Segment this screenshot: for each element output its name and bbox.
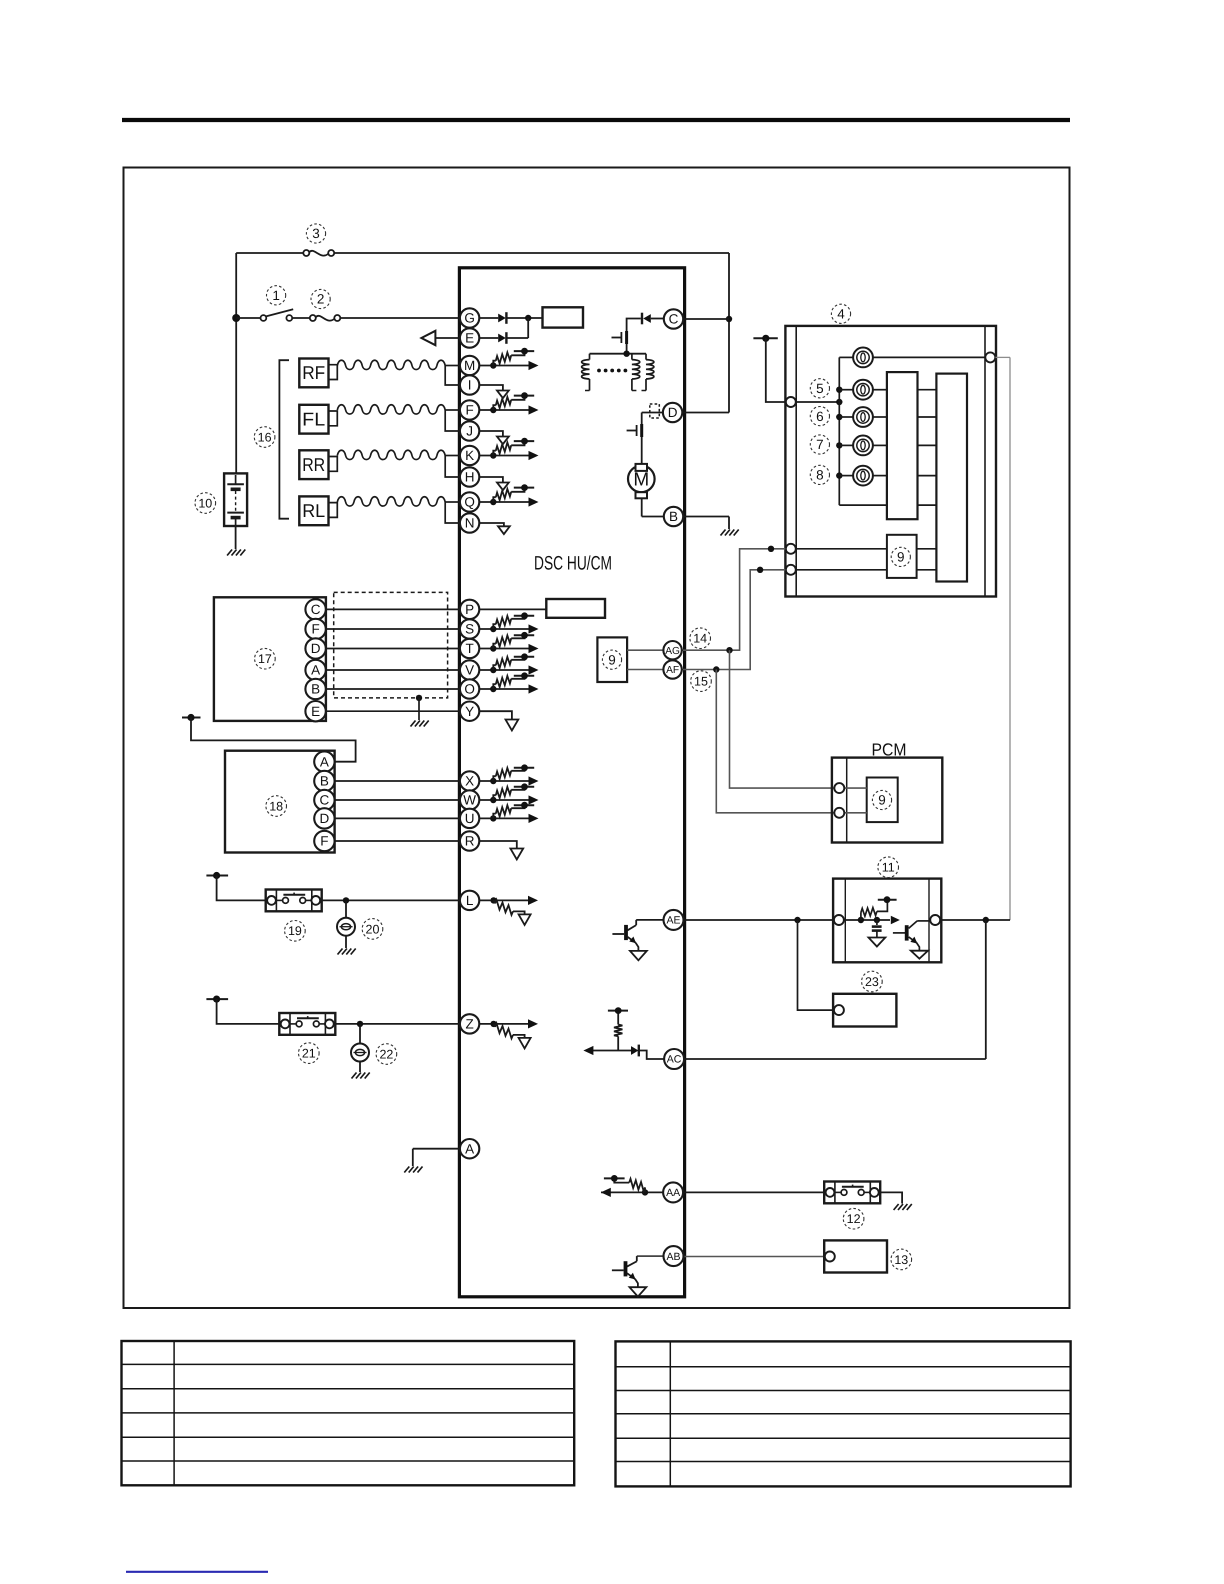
svg-text:C: C: [320, 793, 330, 808]
svg-text:I: I: [468, 378, 472, 393]
svg-text:9: 9: [608, 652, 616, 667]
svg-text:D: D: [668, 405, 678, 420]
svg-text:7: 7: [816, 437, 824, 452]
svg-text:R: R: [465, 834, 475, 849]
svg-text:AG: AG: [665, 646, 680, 657]
svg-text:F: F: [311, 622, 319, 637]
svg-text:H: H: [465, 470, 475, 485]
svg-text:RL: RL: [302, 500, 325, 521]
svg-text:8: 8: [816, 468, 824, 483]
svg-text:9: 9: [878, 793, 886, 808]
svg-text:A: A: [465, 1141, 474, 1156]
svg-text:C: C: [669, 312, 679, 327]
svg-text:FL: FL: [302, 408, 325, 429]
svg-text:K: K: [465, 448, 474, 463]
svg-text:A: A: [320, 754, 329, 769]
svg-text:Z: Z: [465, 1017, 473, 1032]
svg-text:AE: AE: [666, 915, 680, 927]
svg-text:F: F: [320, 834, 328, 849]
svg-text:Y: Y: [465, 704, 474, 719]
svg-text:10: 10: [198, 496, 212, 510]
svg-text:S: S: [465, 622, 474, 637]
svg-text:F: F: [465, 403, 473, 418]
svg-text:PCM: PCM: [872, 740, 907, 760]
svg-text:M: M: [464, 358, 475, 373]
svg-text:U: U: [465, 811, 475, 826]
svg-text:AA: AA: [666, 1187, 680, 1199]
svg-text:Q: Q: [464, 495, 475, 510]
svg-text:5: 5: [816, 381, 824, 396]
svg-text:G: G: [464, 311, 475, 326]
svg-text:6: 6: [816, 409, 824, 424]
svg-text:13: 13: [894, 1253, 908, 1267]
svg-text:15: 15: [694, 674, 708, 688]
svg-text:E: E: [311, 704, 320, 719]
svg-text:14: 14: [693, 632, 707, 646]
svg-text:19: 19: [288, 924, 302, 938]
svg-text:17: 17: [258, 652, 272, 666]
svg-text:23: 23: [865, 975, 879, 989]
svg-text:4: 4: [837, 307, 845, 322]
svg-text:2: 2: [317, 292, 325, 307]
svg-text:RF: RF: [302, 362, 325, 383]
svg-text:AF: AF: [666, 665, 679, 676]
svg-text:20: 20: [366, 922, 380, 936]
svg-text:12: 12: [847, 1212, 861, 1226]
svg-text:B: B: [669, 509, 678, 524]
svg-text:T: T: [465, 641, 473, 656]
svg-text:B: B: [320, 774, 329, 789]
svg-text:L: L: [466, 893, 474, 908]
svg-text:RR: RR: [302, 454, 325, 475]
svg-text:P: P: [465, 602, 474, 617]
svg-text:1: 1: [272, 288, 280, 303]
svg-text:3: 3: [312, 226, 320, 241]
svg-text:18: 18: [269, 799, 283, 813]
svg-text:N: N: [465, 516, 475, 531]
svg-text:DSC HU/CM: DSC HU/CM: [534, 552, 612, 574]
svg-text:B: B: [311, 682, 320, 697]
svg-text:W: W: [463, 793, 476, 808]
svg-text:D: D: [311, 641, 321, 656]
svg-text:11: 11: [882, 861, 895, 875]
svg-text:D: D: [320, 811, 330, 826]
svg-text:E: E: [465, 331, 474, 346]
svg-text:AB: AB: [666, 1251, 680, 1263]
svg-text:J: J: [466, 424, 473, 439]
svg-text:AC: AC: [667, 1054, 682, 1066]
svg-text:X: X: [465, 774, 474, 789]
svg-text:22: 22: [379, 1047, 393, 1061]
svg-text:V: V: [465, 663, 474, 678]
svg-text:C: C: [311, 602, 321, 617]
svg-text:A: A: [311, 663, 320, 678]
svg-text:M: M: [633, 470, 649, 491]
svg-text:9: 9: [897, 550, 905, 565]
svg-text:16: 16: [258, 430, 272, 444]
svg-text:O: O: [464, 682, 475, 697]
svg-text:21: 21: [302, 1046, 316, 1060]
